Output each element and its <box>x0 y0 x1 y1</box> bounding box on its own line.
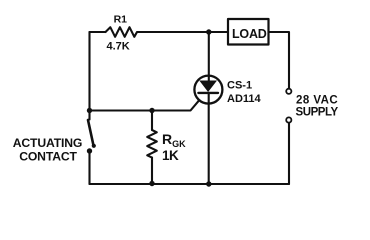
svg-text:CONTACT: CONTACT <box>19 150 77 164</box>
svg-text:28 VAC: 28 VAC <box>296 94 338 106</box>
svg-text:4.7K: 4.7K <box>107 41 130 53</box>
svg-text:1K: 1K <box>162 148 179 163</box>
svg-text:SUPPLY: SUPPLY <box>296 106 339 118</box>
svg-text:RGK: RGK <box>162 131 186 149</box>
svg-text:CS-1: CS-1 <box>227 80 252 92</box>
svg-text:AD114: AD114 <box>227 93 262 105</box>
svg-text:LOAD: LOAD <box>232 27 267 41</box>
svg-text:R1: R1 <box>114 13 128 25</box>
svg-text:ACTUATING: ACTUATING <box>13 136 83 150</box>
